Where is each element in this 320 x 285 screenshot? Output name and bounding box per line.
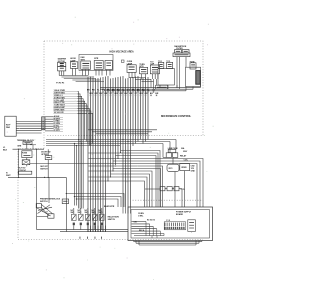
terminal ticks under interlock bus bbox=[80, 237, 102, 239]
svg-text:WH: WH bbox=[139, 93, 143, 95]
main relay RY3 bbox=[167, 164, 179, 171]
wire: board bottom external runs bbox=[134, 241, 203, 246]
connector CN-E (oven lamp) bbox=[127, 61, 136, 78]
connector CN-B (hood lamp) bbox=[70, 58, 78, 75]
label block: control board pinout (lower) bbox=[53, 115, 63, 132]
keyboard / membrane panel bbox=[5, 116, 16, 136]
label: neutral bbox=[6, 173, 11, 178]
svg-text:SWITCH: SWITCH bbox=[40, 168, 48, 170]
svg-text:10 VIO DR: 10 VIO DR bbox=[54, 112, 64, 114]
label: blower motor bbox=[104, 206, 115, 208]
magnetron enclosure bbox=[158, 69, 175, 85]
wire: magnetron leads bbox=[177, 57, 186, 90]
ribbon connector CN-K bbox=[42, 117, 45, 130]
wire: SW1 leads bbox=[47, 149, 49, 177]
svg-text:SWITCH: SWITCH bbox=[108, 219, 116, 221]
scan noise speckles bbox=[7, 17, 214, 280]
svg-text:1 5 9: 1 5 9 bbox=[166, 220, 170, 222]
svg-text:G GRY: G GRY bbox=[54, 130, 61, 132]
label: relay coil bbox=[184, 160, 189, 162]
wire: connector drop leads bbox=[83, 70, 111, 76]
wire: control feed lines bbox=[46, 139, 176, 146]
wire: bundle cross ties bbox=[88, 130, 157, 134]
wire: harness into board top bbox=[123, 207, 131, 214]
svg-text:CN1: CN1 bbox=[134, 222, 138, 224]
wire: ribbon tails to control bbox=[45, 117, 53, 131]
svg-text:PAD: PAD bbox=[6, 126, 11, 129]
wire: label column fan-out bbox=[78, 92, 93, 209]
connector CN-F (turntable motor) bbox=[139, 64, 147, 79]
svg-text:WHT: WHT bbox=[6, 175, 11, 177]
magnetron filter assembly bbox=[173, 45, 190, 56]
cabinet outline left edge (dashed) bbox=[43, 41, 45, 149]
label: title text bbox=[110, 50, 135, 53]
label: monitor switch bbox=[108, 215, 120, 220]
terminal block TB1 bbox=[17, 139, 35, 145]
cabinet outline (upper dashed enclosure) bbox=[44, 41, 203, 136]
svg-text:TCO: TCO bbox=[166, 61, 170, 63]
svg-text:REV A: REV A bbox=[139, 229, 145, 232]
svg-text:TCO: TCO bbox=[180, 189, 185, 191]
monitor relay contacts bbox=[18, 167, 32, 174]
svg-text:WH: WH bbox=[89, 93, 93, 95]
wire: interlock drop junctions bbox=[78, 139, 82, 144]
connector block CN-C/CN-D (fan motors) bbox=[79, 55, 113, 71]
wire: relay interconnects bbox=[163, 140, 185, 208]
svg-text:MICROWAVE CONTROL: MICROWAVE CONTROL bbox=[161, 114, 192, 118]
svg-text:MTR: MTR bbox=[94, 58, 99, 60]
wire: harness jogs bbox=[56, 76, 153, 85]
connector CN11 bbox=[188, 220, 196, 232]
wire: runs to control board bbox=[66, 193, 124, 207]
label: MICROWAVE CONTROL bbox=[161, 114, 192, 118]
interlock switch symbols (bottom row) bbox=[71, 210, 105, 225]
svg-text:BLK: BLK bbox=[3, 150, 8, 152]
filter capacitor symbol bbox=[22, 160, 30, 165]
wire harness W2 (right drops from bundle top) bbox=[151, 79, 157, 89]
door switch assembly linkage bbox=[36, 204, 54, 219]
door sensing switch SW1 bbox=[41, 152, 52, 160]
svg-text:MOTOR: MOTOR bbox=[58, 61, 66, 63]
svg-text:WH: WH bbox=[114, 93, 118, 95]
svg-text:RELAY: RELAY bbox=[180, 154, 187, 157]
label: secondary interlock bbox=[40, 166, 48, 170]
label: power supply bbox=[176, 212, 192, 216]
label: board name bbox=[138, 213, 144, 218]
svg-text:SWITCH: SWITCH bbox=[40, 201, 48, 203]
wire: bundle branches to control (right) bbox=[30, 151, 203, 208]
wire: neutral run bbox=[8, 149, 66, 178]
terminal E1 bbox=[121, 60, 124, 62]
connector pin field CN10 bbox=[164, 222, 185, 230]
svg-text:P1 P2 P3: P1 P2 P3 bbox=[56, 82, 64, 84]
H.V. transformer core bbox=[196, 71, 200, 85]
wire: high-voltage bus bbox=[100, 84, 200, 91]
primary interlock switch SW2 bbox=[62, 199, 68, 204]
svg-text:COM NC: COM NC bbox=[18, 170, 26, 172]
line fuse F2 bbox=[168, 148, 179, 153]
svg-text:CTRL: CTRL bbox=[138, 216, 144, 218]
wire harness W1 (vertical bundle) bbox=[88, 76, 148, 232]
L.V. transformer T1 bbox=[180, 164, 190, 171]
label: primary interlock switch bbox=[40, 198, 61, 203]
label: wire color codes on harness bbox=[87, 89, 159, 96]
thermal cutout TCO1 bbox=[158, 61, 164, 69]
wire: ribbon cable bbox=[16, 122, 41, 134]
H.V. transformer enclosure bbox=[186, 67, 201, 86]
label block: control board pinout (upper) bbox=[53, 90, 77, 114]
svg-text:TCO: TCO bbox=[158, 61, 162, 63]
label: CN2 pins bbox=[191, 165, 196, 172]
cabinet outline segment (dashed, above control board) bbox=[130, 200, 203, 207]
wire: bottom bus bbox=[37, 204, 128, 233]
power relays RY1 RY2 bbox=[166, 153, 187, 158]
connector CN-A (damper motor) bbox=[58, 58, 67, 76]
svg-text:BOARD: BOARD bbox=[176, 213, 184, 216]
thermistor / sensor chain bbox=[145, 187, 185, 207]
svg-text:XFMR: XFMR bbox=[181, 167, 187, 169]
cabinet outline (lower dashed enclosure) bbox=[18, 149, 203, 240]
ground lead bbox=[17, 145, 36, 149]
label: fuse rating bbox=[181, 147, 188, 153]
wire: board left-edge entries bbox=[132, 219, 170, 238]
line fuse F1 bbox=[22, 151, 32, 158]
label: L1 line bbox=[3, 147, 8, 152]
wire: mid verticals bbox=[37, 144, 77, 206]
svg-text:GND: GND bbox=[191, 171, 196, 173]
interlock monitor switch bbox=[156, 85, 168, 89]
connector CN-G (H.V. capacitor) bbox=[150, 61, 159, 79]
fuse holder bbox=[190, 61, 196, 69]
oven control board (outline) bbox=[128, 207, 213, 241]
svg-text:GRN: GRN bbox=[17, 145, 22, 147]
wire: fuse to interlock bbox=[26, 158, 28, 167]
svg-text:FUSE: FUSE bbox=[22, 152, 28, 154]
svg-text:FUSE: FUSE bbox=[190, 61, 196, 63]
svg-text:HIGH VOLTAGE AREA: HIGH VOLTAGE AREA bbox=[110, 50, 135, 53]
svg-text:BLWR MTR: BLWR MTR bbox=[104, 206, 115, 208]
wire: L1 feed bbox=[13, 143, 45, 150]
svg-text:K1 K2 K3: K1 K2 K3 bbox=[147, 219, 155, 221]
thermal cutout TCO2 bbox=[166, 61, 172, 69]
